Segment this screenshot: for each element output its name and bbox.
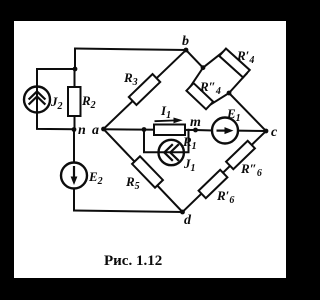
wire top: corner to b [75,49,186,51]
wire J1 branch left drop [144,130,159,153]
resistor R1 [154,125,185,136]
current arrow I1 [155,118,183,124]
wire diamond edge d-a [104,129,183,212]
wire m to E1 [196,129,213,132]
emf source E2 [61,163,87,189]
junction jr2 on b-c [227,91,232,96]
svg-text:d: d [184,213,192,228]
resistor R'6 [199,170,228,198]
wire J2 branch left vertical down to circle [36,69,38,87]
svg-text:m: m [190,115,201,130]
wire connector jr2 to R''4 lower end [209,93,229,105]
junction a-m wire / J1 split [142,127,147,132]
wire a to m horizontal [104,128,196,131]
node a [101,127,106,132]
wire J2 branch below circle to n [37,113,74,130]
wire bottom: corner to d [74,211,183,213]
wire R''4 axis [190,87,209,105]
wire R2 branch vertical through box [74,69,76,130]
wire connector jr2 to R'4 lower end [229,74,247,93]
junction jr1 on b-c [201,65,206,70]
node d [180,210,185,215]
resistor R'4 [219,49,249,78]
svg-text:a: a [92,123,99,138]
wire E2 bottom to corner [73,188,75,211]
node n [72,127,77,132]
wire J2 branch top horizontal [37,68,75,70]
wire connector jr1 to R'4 upper end [203,52,223,67]
resistor R''6 [226,141,255,169]
wire R'4 axis [223,52,247,73]
resistor R3 [129,74,160,105]
svg-text:b: b [182,34,189,49]
svg-text:c: c [271,125,278,140]
current source J2 [24,87,50,113]
emf source E1 [212,118,238,144]
resistor R2 [68,87,81,116]
junction left rail / J2 split [73,67,78,72]
svg-text:n: n [78,123,86,138]
current source J1 [159,140,184,165]
wire E1 to c [238,130,267,132]
wire diamond edge c-d [183,131,267,212]
node b [184,48,189,53]
resistor R5 [132,156,163,187]
wire diamond edge jr2 to c [229,93,266,131]
wire connector jr1 to R''4 upper end [190,68,203,87]
wire diamond edge a-b [104,50,187,129]
resistor R''4 [186,83,213,109]
white paper area [14,21,286,278]
wire diamond edge b to junction jr1 [186,50,203,68]
wire J1 branch right riser [184,130,189,153]
node c [264,129,269,134]
wire left rail top vertical [74,49,76,70]
wire node n down to E2 [73,130,75,164]
svg-text:Рис. 1.12: Рис. 1.12 [104,253,162,269]
node m [193,128,198,133]
